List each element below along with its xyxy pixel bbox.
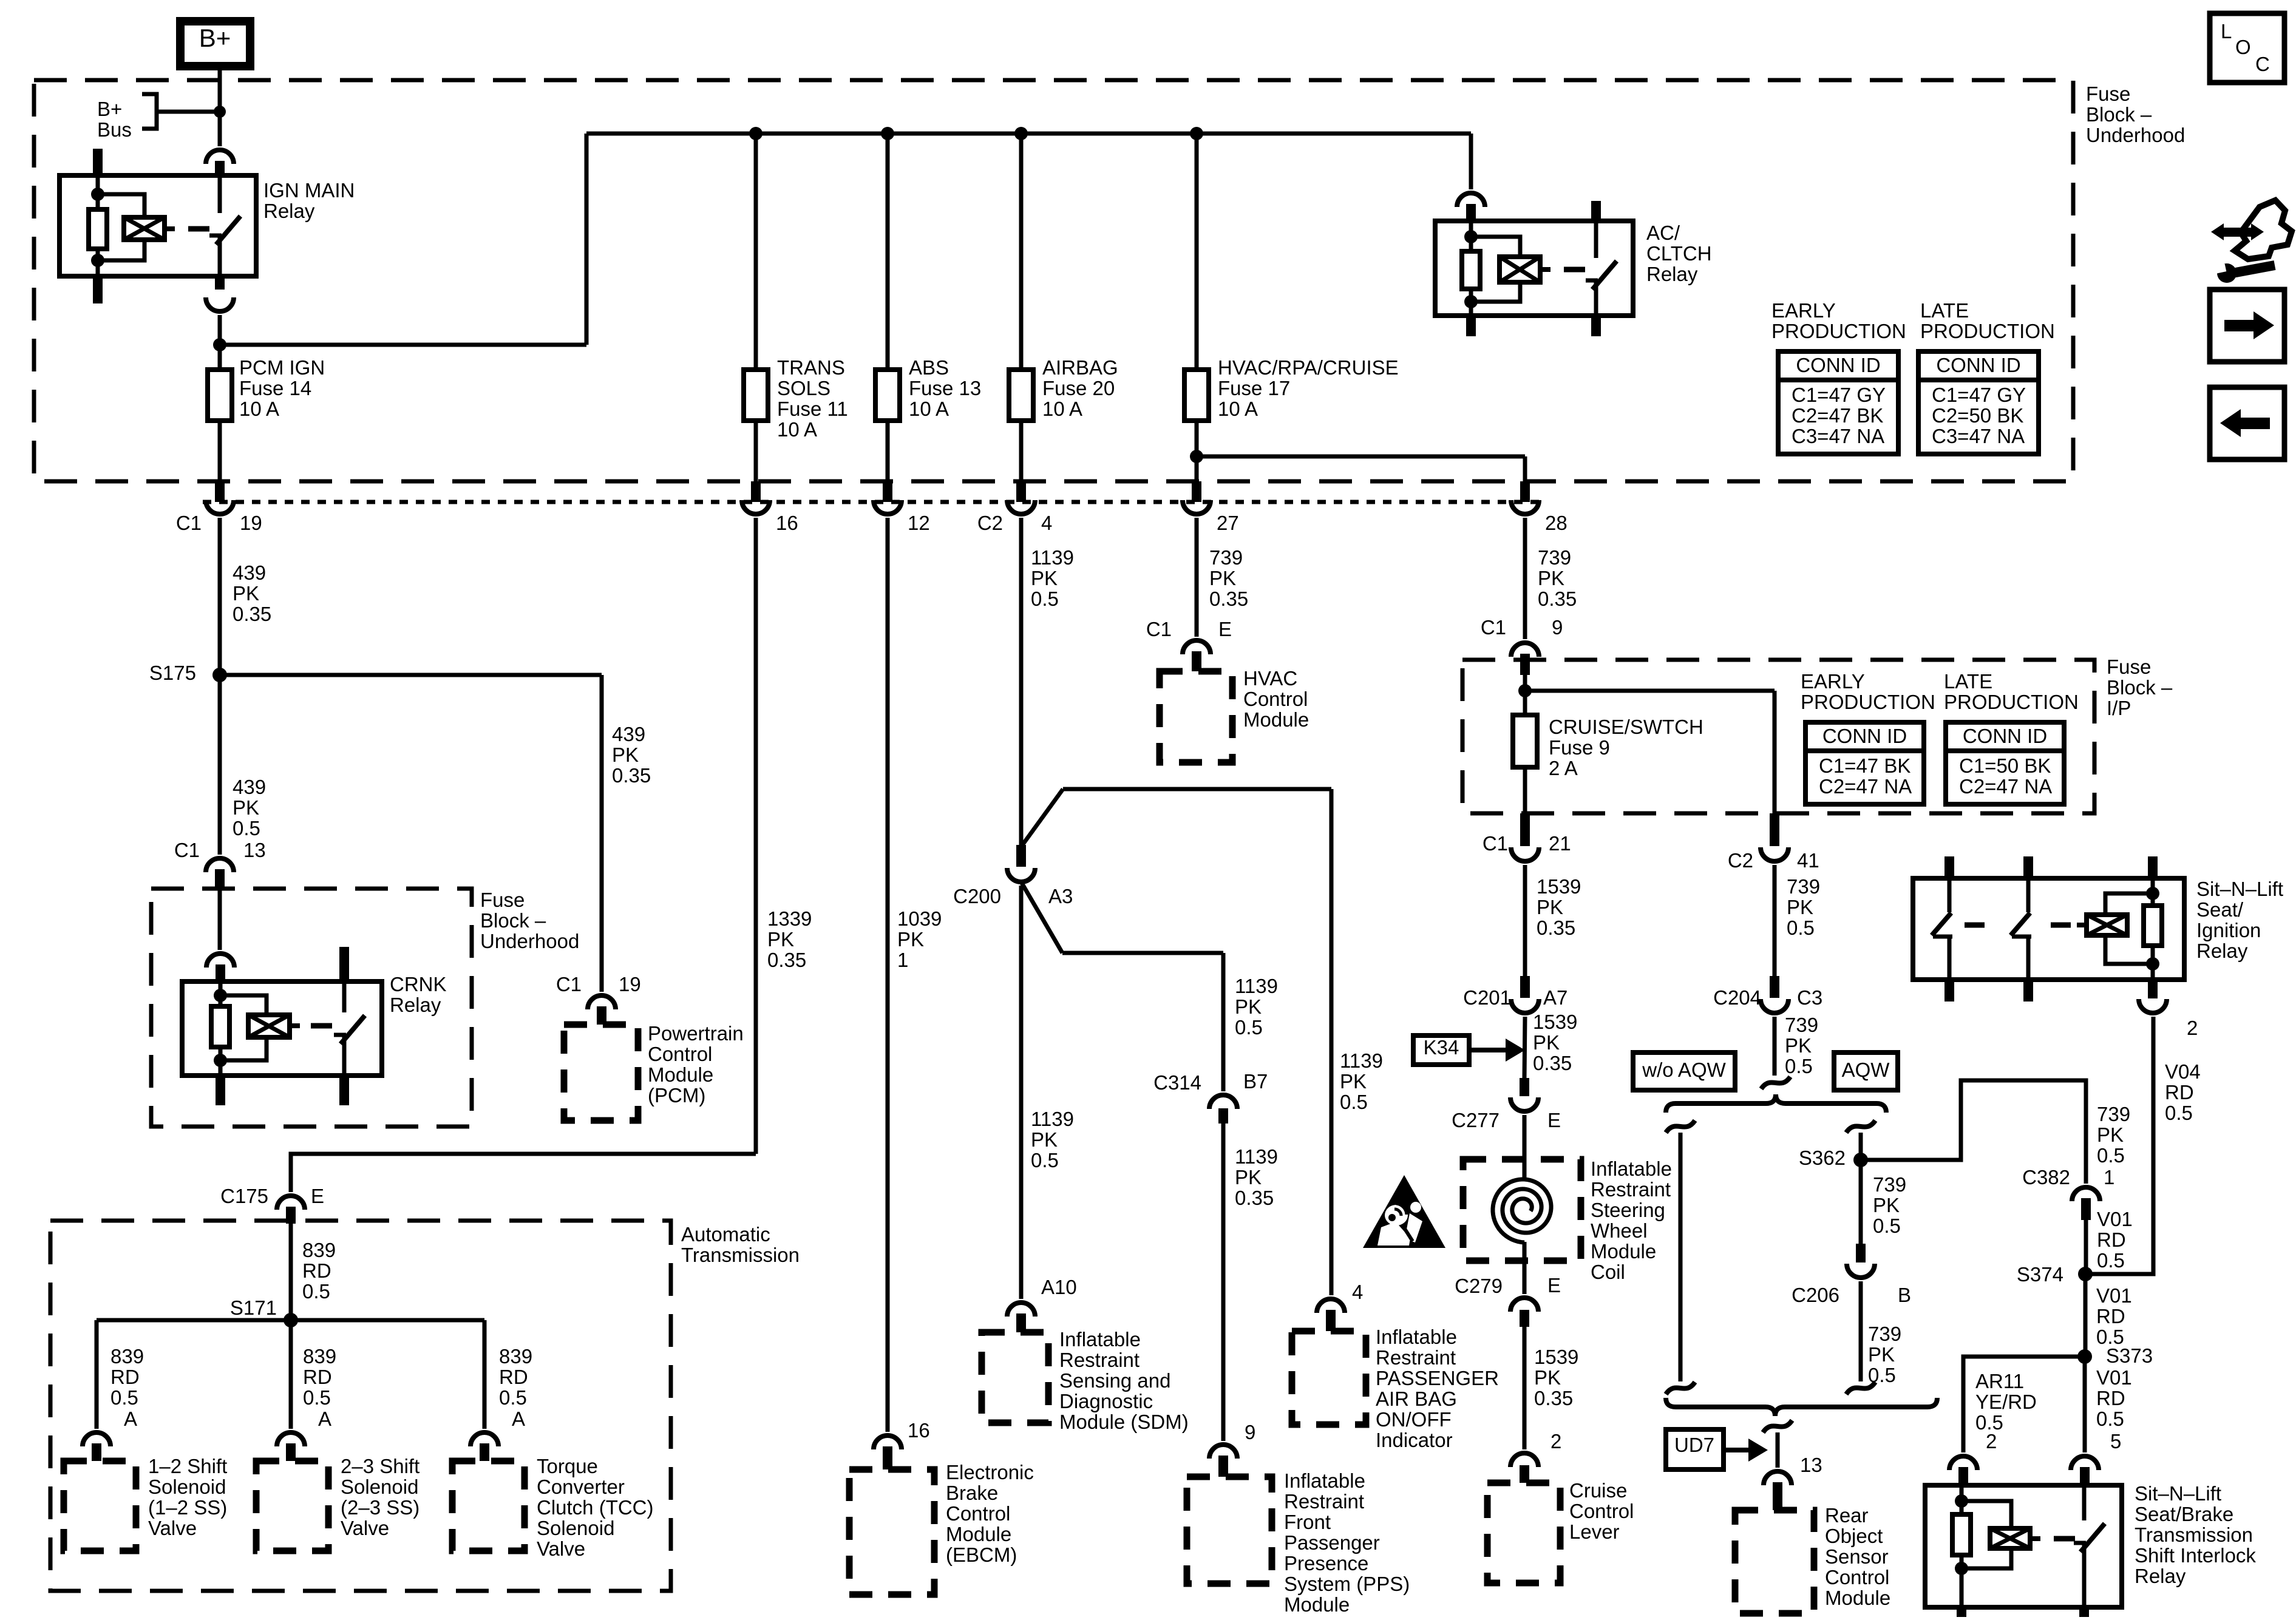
svg-text:Block –: Block – [480,909,546,932]
svg-text:Fuse 17: Fuse 17 [1218,377,1290,399]
svg-text:Restraint: Restraint [1376,1346,1456,1369]
svg-text:Block –: Block – [2086,103,2152,126]
svg-text:PCM IGN: PCM IGN [239,356,325,379]
svg-text:PK: PK [233,796,259,819]
svg-text:2: 2 [2187,1017,2198,1039]
svg-text:Powertrain: Powertrain [648,1022,744,1045]
svg-text:CLTCH: CLTCH [1646,242,1712,265]
svg-text:Relay: Relay [1646,263,1698,285]
svg-text:I/P: I/P [2107,697,2131,719]
svg-text:(1–2 SS): (1–2 SS) [148,1496,227,1519]
svg-text:10 A: 10 A [1218,398,1258,420]
svg-text:PK: PK [1533,1031,1560,1054]
svg-text:PK: PK [2097,1123,2124,1146]
svg-text:C175: C175 [220,1185,268,1207]
svg-text:1139: 1139 [1340,1049,1383,1072]
svg-text:0.5: 0.5 [302,1280,330,1303]
svg-text:Underhood: Underhood [2086,124,2185,146]
svg-text:B+: B+ [97,98,122,120]
svg-text:AC/: AC/ [1646,222,1680,244]
svg-text:A3: A3 [1048,885,1073,907]
svg-text:Block –: Block – [2107,676,2173,699]
svg-text:9: 9 [1245,1421,1255,1443]
svg-text:Passenger: Passenger [1284,1531,1380,1554]
svg-text:RD: RD [2096,1387,2125,1409]
svg-text:PK: PK [1340,1070,1367,1093]
svg-text:10 A: 10 A [239,398,279,420]
svg-text:0.5: 0.5 [1785,1055,1813,1077]
svg-text:RD: RD [303,1366,332,1388]
svg-text:2–3 Shift: 2–3 Shift [341,1455,419,1477]
svg-text:Module (SDM): Module (SDM) [1059,1411,1189,1433]
svg-text:C1: C1 [1146,618,1172,640]
svg-text:Underhood: Underhood [480,930,579,952]
svg-text:V01: V01 [2097,1208,2133,1230]
svg-text:A10: A10 [1041,1276,1077,1298]
svg-text:Sensing and: Sensing and [1059,1369,1170,1392]
svg-text:739: 739 [1873,1173,1906,1196]
svg-text:Steering: Steering [1591,1199,1665,1221]
svg-text:HVAC: HVAC [1243,667,1297,690]
svg-text:C279: C279 [1455,1275,1503,1297]
svg-text:CONN ID: CONN ID [1822,725,1907,747]
svg-text:PRODUCTION: PRODUCTION [1920,320,2055,342]
svg-text:C: C [2255,53,2270,75]
svg-text:YE/RD: YE/RD [1975,1391,2037,1413]
svg-text:1: 1 [2104,1166,2114,1188]
svg-text:S374: S374 [2017,1263,2063,1286]
svg-text:CRUISE/SWTCH: CRUISE/SWTCH [1549,716,1703,738]
svg-text:EARLY: EARLY [1801,670,1865,693]
svg-text:UD7: UD7 [1674,1434,1714,1456]
svg-text:0.35: 0.35 [1533,1052,1572,1074]
svg-text:13: 13 [243,839,266,861]
svg-text:Control: Control [946,1502,1010,1525]
svg-text:C382: C382 [2022,1166,2070,1188]
svg-text:Module: Module [946,1523,1011,1545]
svg-text:S373: S373 [2106,1344,2153,1367]
svg-text:RD: RD [2097,1229,2126,1251]
svg-text:ABS: ABS [909,356,949,379]
svg-text:Inflatable: Inflatable [1059,1328,1141,1351]
svg-text:28: 28 [1545,512,1567,534]
svg-text:LATE: LATE [1920,299,1969,322]
svg-text:C204: C204 [1713,986,1761,1009]
svg-text:0.5: 0.5 [303,1386,331,1409]
svg-text:PRODUCTION: PRODUCTION [1944,691,2079,713]
svg-text:L: L [2221,20,2232,42]
svg-text:Control: Control [648,1043,712,1065]
svg-text:Sit–N–Lift: Sit–N–Lift [2196,878,2283,900]
svg-text:Module: Module [1825,1587,1890,1609]
svg-text:439: 439 [612,723,645,745]
svg-text:0.35: 0.35 [1209,588,1248,610]
svg-text:1339: 1339 [767,907,812,930]
svg-text:EARLY: EARLY [1771,299,1836,322]
svg-text:739: 739 [1538,546,1571,569]
svg-text:Fuse 14: Fuse 14 [239,377,311,399]
svg-text:(EBCM): (EBCM) [946,1544,1017,1566]
svg-text:(2–3 SS): (2–3 SS) [341,1496,419,1519]
svg-text:19: 19 [619,973,641,995]
svg-text:10 A: 10 A [777,418,817,441]
svg-text:19: 19 [240,512,262,534]
svg-text:Presence: Presence [1284,1552,1368,1574]
svg-text:C1=47 GY: C1=47 GY [1792,384,1886,406]
svg-text:0.35: 0.35 [767,949,806,971]
svg-text:Relay: Relay [2196,940,2248,962]
svg-text:E: E [1218,618,1232,640]
svg-text:Indicator: Indicator [1376,1429,1453,1451]
svg-text:PK: PK [1235,1166,1262,1188]
svg-text:21: 21 [1549,832,1571,855]
svg-text:CONN ID: CONN ID [1963,725,2047,747]
svg-text:System (PPS): System (PPS) [1284,1573,1410,1595]
svg-text:Coil: Coil [1591,1261,1625,1283]
svg-text:C314: C314 [1153,1071,1201,1094]
svg-text:C1: C1 [176,512,202,534]
svg-text:1–2 Shift: 1–2 Shift [148,1455,227,1477]
svg-text:Control: Control [1243,688,1308,710]
svg-text:IGN MAIN: IGN MAIN [263,179,355,202]
svg-text:Control: Control [1569,1500,1634,1522]
svg-text:1139: 1139 [1031,546,1074,569]
svg-text:Valve: Valve [341,1517,389,1539]
svg-text:A7: A7 [1543,986,1567,1009]
svg-text:0.5: 0.5 [2097,1144,2125,1167]
svg-text:PASSENGER: PASSENGER [1376,1367,1499,1389]
svg-text:10 A: 10 A [1042,398,1082,420]
svg-text:Wheel: Wheel [1591,1219,1648,1242]
svg-text:Clutch (TCC): Clutch (TCC) [537,1496,654,1519]
svg-text:0.5: 0.5 [1031,588,1059,610]
svg-text:C1=50 BK: C1=50 BK [1959,754,2051,777]
svg-text:0.5: 0.5 [2096,1408,2124,1430]
svg-text:B+: B+ [199,24,231,52]
svg-text:RD: RD [2096,1305,2125,1327]
svg-text:PK: PK [1235,995,1262,1018]
svg-text:C2=47 NA: C2=47 NA [1819,775,1912,798]
svg-text:2 A: 2 A [1549,757,1578,779]
svg-text:PK: PK [1537,896,1563,918]
svg-text:1539: 1539 [1534,1346,1578,1368]
svg-text:B7: B7 [1243,1070,1268,1093]
svg-text:0.35: 0.35 [612,764,651,787]
svg-text:0.35: 0.35 [1537,917,1575,939]
svg-text:K34: K34 [1424,1036,1459,1059]
svg-text:Valve: Valve [148,1517,197,1539]
svg-text:0.35: 0.35 [1235,1187,1274,1209]
svg-text:Cruise: Cruise [1569,1479,1627,1502]
svg-text:V01: V01 [2096,1284,2132,1307]
svg-text:Lever: Lever [1569,1520,1620,1543]
svg-text:839: 839 [302,1239,336,1261]
svg-text:AIR BAG: AIR BAG [1376,1388,1457,1410]
svg-text:739: 739 [1868,1323,1901,1345]
svg-text:739: 739 [1209,546,1243,569]
svg-text:27: 27 [1217,512,1239,534]
svg-text:C3=47 NA: C3=47 NA [1792,425,1884,447]
svg-text:E: E [1547,1109,1561,1131]
svg-text:V01: V01 [2096,1366,2132,1389]
svg-text:4: 4 [1041,512,1052,534]
svg-text:Transmission: Transmission [681,1244,800,1266]
svg-text:0.35: 0.35 [1538,588,1577,610]
svg-text:Relay: Relay [2135,1565,2186,1587]
svg-text:CONN ID: CONN ID [1796,354,1880,376]
svg-text:RD: RD [302,1259,331,1282]
svg-text:0.5: 0.5 [233,817,260,839]
svg-text:Module: Module [648,1063,713,1086]
svg-text:C2=50 BK: C2=50 BK [1932,404,2023,427]
svg-text:Electronic: Electronic [946,1461,1034,1483]
svg-text:TRANS: TRANS [777,356,845,379]
svg-text:439: 439 [233,776,266,798]
svg-text:C1: C1 [1483,832,1508,855]
svg-text:E: E [311,1185,324,1207]
svg-text:CRNK: CRNK [390,973,447,995]
svg-text:PRODUCTION: PRODUCTION [1771,320,1906,342]
svg-text:C200: C200 [953,885,1001,907]
svg-text:0.5: 0.5 [2165,1102,2193,1124]
svg-text:V04: V04 [2165,1060,2201,1083]
svg-text:739: 739 [1785,1014,1818,1036]
svg-text:Fuse: Fuse [480,889,525,911]
svg-text:0.5: 0.5 [1031,1149,1059,1171]
svg-text:1: 1 [897,949,908,971]
svg-text:A: A [124,1408,137,1430]
svg-text:C3=47 NA: C3=47 NA [1932,425,2025,447]
svg-text:(PCM): (PCM) [648,1084,705,1107]
svg-text:Fuse: Fuse [2086,83,2130,105]
svg-text:2: 2 [1986,1430,1997,1452]
svg-text:739: 739 [2097,1103,2130,1125]
svg-text:E: E [1547,1274,1561,1296]
svg-text:C1=47 GY: C1=47 GY [1932,384,2026,406]
svg-text:S171: S171 [230,1296,277,1319]
svg-text:HVAC/RPA/CRUISE: HVAC/RPA/CRUISE [1218,356,1399,379]
svg-text:2: 2 [1550,1430,1561,1452]
svg-text:1539: 1539 [1537,875,1581,898]
svg-text:A: A [318,1408,331,1430]
svg-text:0.5: 0.5 [2097,1249,2125,1272]
svg-text:Valve: Valve [537,1537,585,1560]
svg-text:Module: Module [1243,708,1309,731]
svg-text:Solenoid: Solenoid [341,1476,418,1498]
svg-text:PK: PK [1868,1343,1895,1366]
svg-text:Brake: Brake [946,1482,998,1504]
svg-text:AIRBAG: AIRBAG [1042,356,1118,379]
svg-text:C1=47 BK: C1=47 BK [1819,754,1911,777]
svg-text:RD: RD [110,1366,140,1388]
svg-text:0.5: 0.5 [1787,917,1815,939]
svg-text:Sit–N–Lift: Sit–N–Lift [2135,1482,2221,1505]
svg-text:C2: C2 [1728,849,1753,872]
svg-text:C2=47 NA: C2=47 NA [1959,775,2052,798]
svg-text:S175: S175 [149,662,196,684]
svg-text:PK: PK [233,582,259,605]
svg-text:0.35: 0.35 [1534,1387,1573,1409]
svg-text:Restraint: Restraint [1284,1490,1364,1513]
svg-text:Fuse 11: Fuse 11 [777,398,848,420]
svg-text:16: 16 [776,512,798,534]
svg-text:1139: 1139 [1031,1108,1074,1130]
svg-text:Sensor: Sensor [1825,1545,1889,1568]
svg-text:16: 16 [908,1419,930,1442]
svg-text:4: 4 [1352,1281,1363,1303]
svg-text:PK: PK [1787,896,1813,918]
svg-text:Inflatable: Inflatable [1591,1157,1672,1180]
svg-text:Fuse: Fuse [2107,656,2151,678]
svg-text:Fuse 20: Fuse 20 [1042,377,1115,399]
svg-text:C2=47 BK: C2=47 BK [1792,404,1883,427]
svg-text:C1: C1 [556,973,582,995]
svg-text:C201: C201 [1463,986,1511,1009]
svg-text:Diagnostic: Diagnostic [1059,1390,1153,1412]
svg-text:PK: PK [897,928,924,951]
svg-text:RD: RD [2165,1081,2194,1103]
svg-text:PK: PK [1534,1366,1561,1389]
svg-text:AR11: AR11 [1975,1370,2024,1392]
svg-text:0.5: 0.5 [1868,1364,1896,1386]
svg-text:RD: RD [499,1366,528,1388]
svg-text:Shift Interlock: Shift Interlock [2135,1544,2256,1567]
svg-text:739: 739 [1787,875,1820,898]
svg-text:Front: Front [1284,1511,1331,1533]
svg-text:Fuse 13: Fuse 13 [909,377,981,399]
svg-text:Control: Control [1825,1566,1889,1588]
svg-text:Restraint: Restraint [1591,1178,1671,1201]
svg-text:Seat/Brake: Seat/Brake [2135,1503,2233,1525]
svg-text:Rear: Rear [1825,1504,1869,1527]
svg-text:Module: Module [1284,1593,1350,1616]
svg-text:C206: C206 [1792,1284,1839,1306]
svg-text:PK: PK [1031,567,1058,589]
svg-text:PK: PK [1785,1034,1812,1057]
svg-text:Relay: Relay [263,200,315,222]
svg-text:10 A: 10 A [909,398,949,420]
svg-text:C1: C1 [1481,616,1506,639]
svg-text:839: 839 [110,1345,144,1368]
svg-text:Fuse 9: Fuse 9 [1549,736,1610,759]
svg-text:B: B [1898,1284,1911,1306]
svg-text:Torque: Torque [537,1455,598,1477]
svg-text:PRODUCTION: PRODUCTION [1801,691,1935,713]
svg-text:0.35: 0.35 [233,603,271,625]
svg-text:13: 13 [1800,1454,1822,1476]
svg-text:CONN ID: CONN ID [1936,354,2020,376]
svg-text:Object: Object [1825,1525,1883,1547]
svg-text:C277: C277 [1452,1109,1500,1131]
svg-text:LATE: LATE [1944,670,1992,693]
svg-text:C1: C1 [174,839,200,861]
svg-text:PK: PK [612,744,639,766]
svg-text:0.5: 0.5 [499,1386,527,1409]
svg-text:O: O [2235,36,2251,58]
svg-text:SOLS: SOLS [777,377,830,399]
svg-text:Transmission: Transmission [2135,1523,2253,1546]
svg-text:1539: 1539 [1533,1011,1577,1033]
svg-text:Inflatable: Inflatable [1284,1469,1365,1492]
svg-text:839: 839 [303,1345,336,1368]
svg-text:Ignition: Ignition [2196,919,2261,941]
svg-text:41: 41 [1797,849,1819,872]
svg-text:439: 439 [233,561,266,584]
svg-text:A: A [512,1408,525,1430]
svg-text:w/o AQW: w/o AQW [1642,1059,1726,1081]
svg-text:1139: 1139 [1235,1145,1278,1168]
svg-text:0.5: 0.5 [110,1386,138,1409]
svg-text:0.5: 0.5 [1873,1215,1901,1237]
svg-text:C2: C2 [977,512,1003,534]
svg-text:PK: PK [1538,567,1564,589]
svg-text:9: 9 [1552,616,1563,639]
svg-text:PK: PK [767,928,794,951]
svg-text:AQW: AQW [1842,1059,1890,1081]
svg-text:Solenoid: Solenoid [537,1517,614,1539]
svg-text:Seat/: Seat/ [2196,898,2244,921]
svg-text:C3: C3 [1797,986,1822,1009]
svg-text:ON/OFF: ON/OFF [1376,1408,1452,1431]
svg-text:1139: 1139 [1235,975,1278,997]
svg-text:Bus: Bus [97,118,132,141]
svg-text:12: 12 [908,512,930,534]
svg-text:Relay: Relay [390,994,441,1016]
svg-text:839: 839 [499,1345,532,1368]
svg-text:0.5: 0.5 [1340,1091,1368,1113]
svg-text:Restraint: Restraint [1059,1349,1140,1371]
svg-text:PK: PK [1031,1128,1058,1151]
svg-text:Converter: Converter [537,1476,625,1498]
svg-text:Module: Module [1591,1240,1656,1262]
svg-text:Automatic: Automatic [681,1223,770,1246]
svg-text:Inflatable: Inflatable [1376,1326,1457,1348]
svg-text:5: 5 [2110,1430,2121,1452]
svg-text:0.5: 0.5 [1235,1016,1263,1039]
svg-text:PK: PK [1873,1194,1900,1216]
svg-text:Solenoid: Solenoid [148,1476,226,1498]
svg-text:S362: S362 [1799,1147,1846,1169]
svg-text:PK: PK [1209,567,1236,589]
svg-text:1039: 1039 [897,907,942,930]
